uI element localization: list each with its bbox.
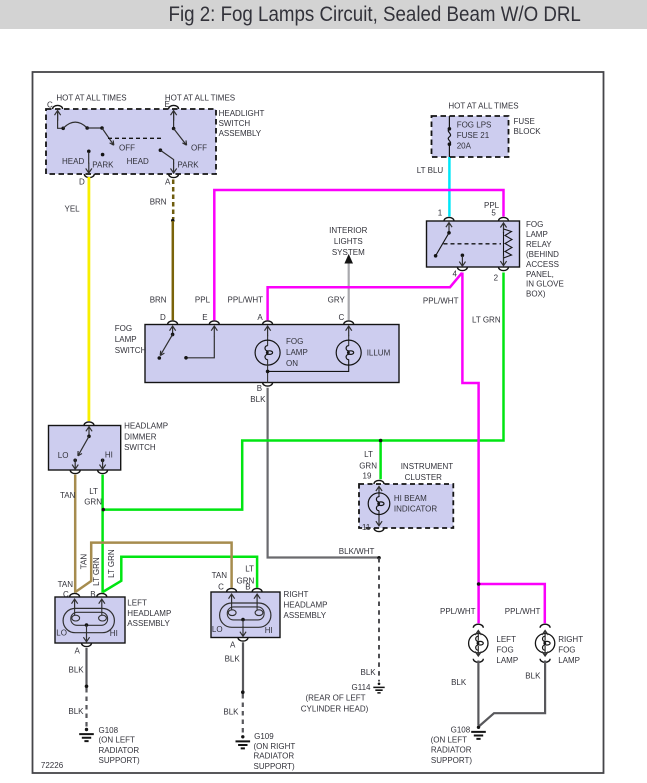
svg-text:HEADLAMP: HEADLAMP xyxy=(124,422,168,431)
headlight switch assembly U1 xyxy=(46,94,264,187)
svg-text:C: C xyxy=(218,582,224,591)
svg-text:GRY: GRY xyxy=(328,296,346,305)
svg-text:FOG: FOG xyxy=(115,324,132,333)
svg-text:LT GRN: LT GRN xyxy=(107,549,116,578)
svg-text:(ON RIGHT: (ON RIGHT xyxy=(254,742,296,751)
svg-text:PPL/WHT: PPL/WHT xyxy=(423,296,459,305)
svg-text:PPL/WHT: PPL/WHT xyxy=(228,296,264,305)
svg-text:YEL: YEL xyxy=(65,205,81,214)
svg-text:INDICATOR: INDICATOR xyxy=(394,504,437,513)
svg-text:BLK: BLK xyxy=(250,395,266,404)
svg-text:ON: ON xyxy=(286,359,298,368)
svg-text:(REAR OF LEFT: (REAR OF LEFT xyxy=(305,694,365,703)
svg-text:TAN: TAN xyxy=(80,554,89,570)
svg-text:HI: HI xyxy=(105,450,113,459)
svg-text:BRN: BRN xyxy=(150,197,167,206)
svg-text:TAN: TAN xyxy=(212,571,228,580)
svg-text:ASSEMBLY: ASSEMBLY xyxy=(219,129,262,138)
ground G114 xyxy=(301,682,385,713)
svg-text:B: B xyxy=(90,590,95,599)
svg-text:4: 4 xyxy=(453,269,458,278)
right fog lamp xyxy=(535,624,583,665)
svg-text:SUPPORT): SUPPORT) xyxy=(254,762,296,771)
svg-text:BOX): BOX) xyxy=(526,290,546,299)
svg-text:LEFT: LEFT xyxy=(496,635,516,644)
svg-text:LAMP: LAMP xyxy=(558,656,580,665)
svg-text:OFF: OFF xyxy=(191,144,207,153)
wire BLK fog lamps to G108 xyxy=(451,661,545,727)
svg-text:HOT AT ALL TIMES: HOT AT ALL TIMES xyxy=(165,94,235,103)
svg-text:FUSE: FUSE xyxy=(514,117,535,126)
svg-text:TAN: TAN xyxy=(58,580,74,589)
svg-text:RIGHT: RIGHT xyxy=(284,590,309,599)
svg-text:HEAD: HEAD xyxy=(127,157,149,166)
svg-text:ASSEMBLY: ASSEMBLY xyxy=(127,619,170,628)
svg-text:DIMMER: DIMMER xyxy=(124,432,157,441)
headlamp dimmer switch xyxy=(49,422,169,474)
instrument cluster / hi beam indicator xyxy=(359,462,453,532)
splice dot BRN xyxy=(171,219,175,223)
svg-text:CYLINDER HEAD): CYLINDER HEAD) xyxy=(301,705,369,714)
svg-text:RADIATOR: RADIATOR xyxy=(99,746,140,755)
wire BLK right headlamp to G109 xyxy=(223,642,244,735)
wire BLK from switch B xyxy=(250,388,377,558)
svg-text:20A: 20A xyxy=(457,141,472,150)
wire BRN solid xyxy=(150,197,173,320)
wire LT GRN branch to right headlamp B xyxy=(103,557,257,592)
svg-text:LT BLU: LT BLU xyxy=(417,166,444,175)
svg-text:INTERIOR: INTERIOR xyxy=(329,226,367,235)
svg-text:HEAD: HEAD xyxy=(62,157,84,166)
wire BRN dashed xyxy=(172,180,175,220)
svg-text:LO: LO xyxy=(212,625,223,634)
wire YEL xyxy=(65,177,89,421)
svg-text:BLK: BLK xyxy=(361,668,377,677)
svg-text:HI: HI xyxy=(265,626,273,635)
svg-text:BLK: BLK xyxy=(525,671,541,680)
wire PPL/WHT relay pin 4 to fog lamps xyxy=(423,273,545,624)
svg-text:E: E xyxy=(202,313,207,322)
ground G109 right radiator xyxy=(236,732,296,771)
svg-text:A: A xyxy=(230,640,236,649)
fuse block xyxy=(432,101,542,157)
svg-text:HOT AT ALL TIMES: HOT AT ALL TIMES xyxy=(448,101,518,110)
svg-text:C: C xyxy=(63,590,69,599)
wire PPL xyxy=(195,190,504,320)
svg-text:HEADLAMP: HEADLAMP xyxy=(127,609,171,618)
svg-text:RELAY: RELAY xyxy=(526,240,552,249)
svg-text:G114: G114 xyxy=(352,683,372,692)
svg-text:PPL/WHT: PPL/WHT xyxy=(505,607,541,616)
svg-text:B: B xyxy=(257,384,262,393)
svg-text:BLK: BLK xyxy=(225,655,241,664)
wire TAN dimmer LO to left headlamp C xyxy=(60,475,76,593)
svg-text:BLK: BLK xyxy=(223,708,239,717)
svg-text:RIGHT: RIGHT xyxy=(558,635,583,644)
svg-text:BRN: BRN xyxy=(150,296,167,305)
ground G108 fog lamps xyxy=(431,725,486,765)
svg-text:(ON LEFT: (ON LEFT xyxy=(99,736,136,745)
svg-text:HI BEAM: HI BEAM xyxy=(394,494,427,503)
left headlamp assembly xyxy=(55,580,171,656)
right headlamp assembly xyxy=(211,582,328,649)
svg-text:G108: G108 xyxy=(451,725,471,734)
left fog lamp xyxy=(469,624,519,665)
svg-text:FUSE 21: FUSE 21 xyxy=(457,131,490,140)
svg-text:HEADLAMP: HEADLAMP xyxy=(284,601,328,610)
svg-text:D: D xyxy=(79,178,85,187)
svg-text:(ON LEFT: (ON LEFT xyxy=(431,735,468,744)
svg-text:PANEL,: PANEL, xyxy=(526,270,554,279)
svg-text:LO: LO xyxy=(58,451,69,460)
wire LT GRN dimmer HI to left headlamp B xyxy=(84,475,105,593)
svg-text:LO: LO xyxy=(56,629,67,638)
svg-text:LAMP: LAMP xyxy=(496,656,518,665)
svg-text:SWITCH: SWITCH xyxy=(115,346,147,355)
svg-text:TAN: TAN xyxy=(60,491,76,500)
wire BLK left headlamp to G108 xyxy=(68,648,88,728)
svg-text:FOG: FOG xyxy=(526,220,543,229)
wire PPL/WHT switch A to relay pin 4 xyxy=(228,273,463,320)
svg-text:11: 11 xyxy=(362,523,371,532)
svg-text:D: D xyxy=(160,313,166,322)
svg-text:RADIATOR: RADIATOR xyxy=(254,751,295,760)
wire BLK/WHT to G114 xyxy=(339,547,381,682)
svg-text:BLOCK: BLOCK xyxy=(514,127,542,136)
ground G108 left radiator xyxy=(79,726,140,765)
svg-text:(BEHIND: (BEHIND xyxy=(526,250,559,259)
fog lamp relay K1 xyxy=(427,209,564,299)
svg-text:FOG: FOG xyxy=(558,646,575,655)
svg-text:SUPPORT): SUPPORT) xyxy=(431,756,473,765)
svg-text:PARK: PARK xyxy=(92,161,114,170)
svg-text:5: 5 xyxy=(491,209,496,218)
svg-text:RADIATOR: RADIATOR xyxy=(431,746,472,755)
svg-text:LT: LT xyxy=(364,450,373,459)
svg-text:Fig 2: Fog Lamps Circuit, Seal: Fig 2: Fog Lamps Circuit, Sealed Beam W/… xyxy=(169,3,581,26)
svg-text:ACCESS: ACCESS xyxy=(526,260,559,269)
svg-text:A: A xyxy=(257,313,263,322)
svg-text:LT: LT xyxy=(245,564,254,573)
svg-text:A: A xyxy=(165,178,171,187)
svg-text:72226: 72226 xyxy=(41,761,64,770)
svg-text:C: C xyxy=(339,313,345,322)
svg-text:SWITCH: SWITCH xyxy=(124,443,156,452)
svg-text:G108: G108 xyxy=(99,726,119,735)
svg-text:BLK/WHT: BLK/WHT xyxy=(339,547,375,556)
svg-text:PPL/WHT: PPL/WHT xyxy=(440,607,476,616)
fuse F21 FOG LPS 20A xyxy=(448,116,492,157)
svg-text:LT GRN: LT GRN xyxy=(472,316,501,325)
svg-text:FOG: FOG xyxy=(286,337,303,346)
svg-text:LAMP: LAMP xyxy=(286,348,308,357)
svg-text:LT: LT xyxy=(89,487,98,496)
svg-text:LAMP: LAMP xyxy=(526,230,548,239)
svg-text:SUPPORT): SUPPORT) xyxy=(99,756,141,765)
svg-text:HOT AT ALL TIMES: HOT AT ALL TIMES xyxy=(56,94,126,103)
svg-text:LT GRN: LT GRN xyxy=(92,557,101,586)
svg-text:IN GLOVE: IN GLOVE xyxy=(526,280,564,289)
svg-text:GRN: GRN xyxy=(359,461,377,470)
svg-text:BLK: BLK xyxy=(68,707,84,716)
svg-text:HI: HI xyxy=(110,629,118,638)
svg-text:19: 19 xyxy=(363,471,372,480)
svg-text:PPL: PPL xyxy=(195,296,211,305)
svg-text:ASSEMBLY: ASSEMBLY xyxy=(284,611,327,620)
svg-text:INSTRUMENT: INSTRUMENT xyxy=(401,462,454,471)
svg-text:BLK: BLK xyxy=(69,666,85,675)
svg-text:CLUSTER: CLUSTER xyxy=(405,473,443,482)
fog lamp switch S2 xyxy=(115,313,399,393)
svg-text:PARK: PARK xyxy=(177,161,199,170)
wire LT BLU xyxy=(417,157,450,217)
svg-text:LIGHTS: LIGHTS xyxy=(334,237,363,246)
svg-text:GRN: GRN xyxy=(84,497,102,506)
svg-text:A: A xyxy=(75,646,81,655)
wire TAN branch to right headlamp C xyxy=(75,543,231,592)
diagram border frame xyxy=(33,72,604,773)
svg-text:SWITCH: SWITCH xyxy=(219,119,251,128)
svg-text:LAMP: LAMP xyxy=(115,335,137,344)
svg-text:OFF: OFF xyxy=(119,144,135,153)
svg-text:FOG: FOG xyxy=(496,646,513,655)
svg-text:SYSTEM: SYSTEM xyxy=(332,248,365,257)
svg-text:B: B xyxy=(245,582,250,591)
svg-text:HEADLIGHT: HEADLIGHT xyxy=(219,109,265,118)
wire GRY to interior lights system xyxy=(328,226,368,320)
svg-text:2: 2 xyxy=(494,274,499,283)
rotated wire labels near left headlamp xyxy=(80,549,117,586)
svg-text:LEFT: LEFT xyxy=(127,599,147,608)
wire LT GRN net: relay pin 2 to dimmer junction xyxy=(105,273,504,510)
svg-text:ILLUM: ILLUM xyxy=(367,349,391,358)
svg-text:BLK: BLK xyxy=(451,678,467,687)
svg-text:1: 1 xyxy=(438,209,443,218)
title bar xyxy=(0,0,647,29)
svg-text:G109: G109 xyxy=(254,732,274,741)
svg-text:FOG LPS: FOG LPS xyxy=(457,120,492,129)
